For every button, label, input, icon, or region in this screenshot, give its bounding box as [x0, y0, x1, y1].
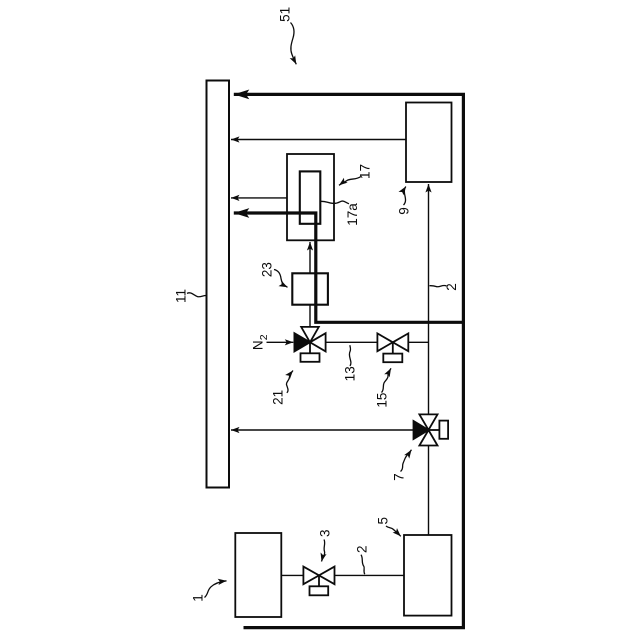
- leader 2 lower: [361, 555, 365, 575]
- leader 13: [349, 345, 351, 366]
- svg-text:1: 1: [190, 594, 205, 602]
- svg-text:21: 21: [271, 390, 286, 405]
- svg-text:11: 11: [174, 289, 189, 303]
- valve 15: [377, 333, 408, 362]
- svg-text:23: 23: [259, 262, 274, 277]
- leader 17a: [321, 201, 349, 204]
- leader 21: [286, 371, 293, 393]
- N2 inlet arrow: [267, 341, 294, 343]
- thick branch line with arrow into 11: [234, 213, 464, 322]
- leader 11: [187, 293, 206, 297]
- leader 15: [382, 368, 392, 392]
- pipe from box 23 up into box 17: [309, 242, 311, 273]
- leader 17: [339, 177, 361, 186]
- pipe from valve 3 to box 5: [335, 574, 405, 576]
- svg-text:17a: 17a: [345, 203, 360, 226]
- svg-text:2: 2: [355, 546, 370, 554]
- pipe 2 from box 1 to valve 3: [281, 574, 303, 576]
- leader 7: [401, 450, 412, 472]
- box 23: [292, 273, 328, 304]
- leader 23: [274, 270, 288, 288]
- svg-text:51: 51: [278, 7, 293, 22]
- pipe from box 9 to 11: [231, 139, 406, 141]
- leader 51: [291, 23, 297, 65]
- svg-text:13: 13: [343, 366, 358, 381]
- svg-text:3: 3: [317, 530, 332, 538]
- svg-text:9: 9: [397, 207, 412, 215]
- valve 3: [303, 567, 334, 596]
- valve 21 (three-way): [294, 327, 325, 362]
- leader 1: [205, 581, 227, 598]
- box 1: [235, 533, 281, 617]
- svg-text:5: 5: [376, 517, 391, 525]
- pipe 13 between valve 21 and valve 15: [326, 341, 378, 343]
- valve 7 (three-way): [414, 414, 449, 445]
- pipe from valve 15 to vertical pipe: [408, 341, 428, 343]
- pipe from box 17 to 11: [231, 197, 287, 199]
- pipe from valve 7 down to box 5: [428, 446, 430, 536]
- svg-text:N: N: [250, 340, 265, 350]
- leader 3: [322, 540, 325, 562]
- svg-text:7: 7: [392, 473, 407, 481]
- chamber rectangle 11: [207, 81, 230, 488]
- pipe from valve 7 to 11: [231, 429, 414, 431]
- svg-text:2: 2: [444, 283, 459, 291]
- box 9: [406, 103, 452, 183]
- svg-text:2: 2: [258, 334, 270, 340]
- box 17: [287, 154, 334, 240]
- leader 2 upper: [430, 285, 447, 286]
- svg-text:15: 15: [375, 393, 390, 408]
- pipe from valve 21 up to box 23: [309, 305, 311, 327]
- box 17a: [300, 171, 321, 223]
- leader 9: [404, 187, 406, 206]
- thick outer line with arrow into 11: [234, 94, 464, 627]
- box 5: [404, 535, 452, 616]
- pipe 2 from valve 7 up to box 9: [428, 184, 430, 414]
- leader 5: [386, 526, 401, 536]
